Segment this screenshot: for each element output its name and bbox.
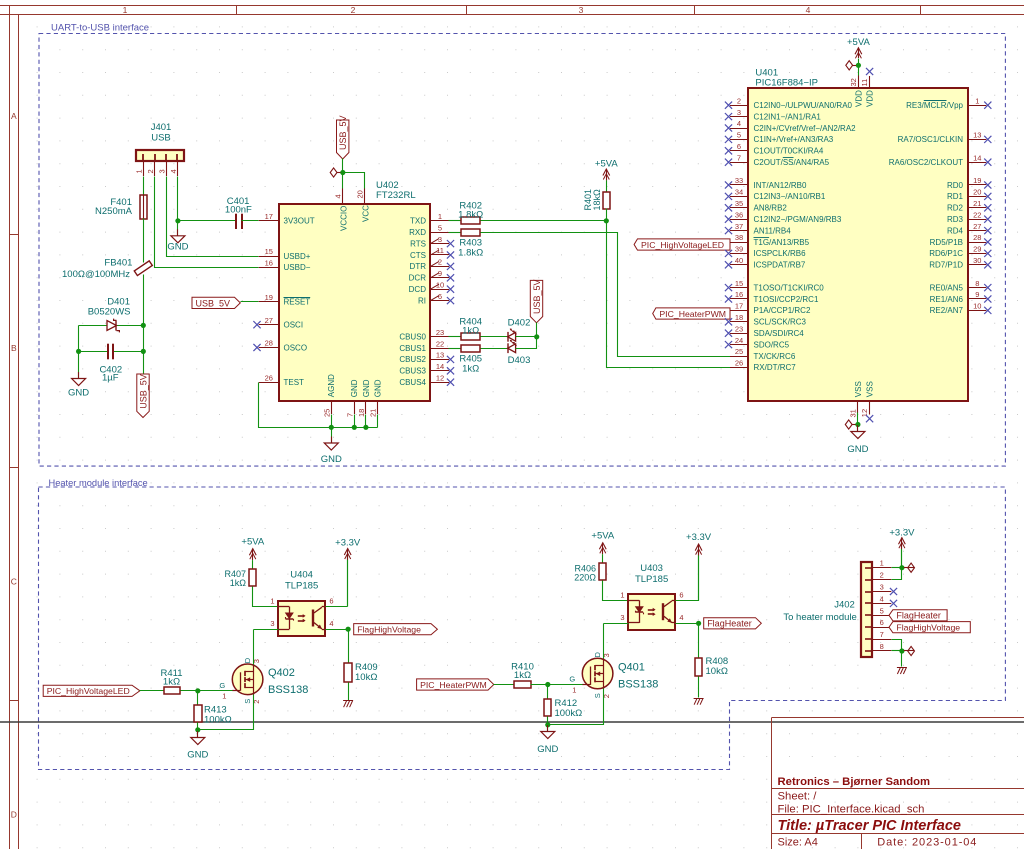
svg-text:SCL/SCK/RC3: SCL/SCK/RC3 xyxy=(754,318,807,327)
svg-text:USB_5V: USB_5V xyxy=(532,279,542,314)
svg-text:TLP185: TLP185 xyxy=(635,574,668,585)
svg-text:VSS: VSS xyxy=(854,381,863,397)
svg-text:3: 3 xyxy=(158,169,167,173)
svg-text:1: 1 xyxy=(135,169,144,173)
svg-text:USB_5V: USB_5V xyxy=(138,374,148,409)
svg-text:3: 3 xyxy=(602,653,611,657)
svg-text:SDA/SDI/RC4: SDA/SDI/RC4 xyxy=(754,329,805,338)
svg-text:AGND: AGND xyxy=(327,374,336,397)
svg-text:20: 20 xyxy=(973,188,981,197)
svg-text:AN8/RB2: AN8/RB2 xyxy=(754,204,788,213)
svg-text:CBUS3: CBUS3 xyxy=(399,367,426,376)
svg-text:RD6/P1C: RD6/P1C xyxy=(929,249,963,258)
svg-text:GND: GND xyxy=(373,379,382,397)
svg-text:26: 26 xyxy=(265,373,273,382)
svg-text:10kΩ: 10kΩ xyxy=(355,672,377,683)
svg-text:6: 6 xyxy=(880,618,884,627)
svg-text:1µF: 1µF xyxy=(102,373,119,384)
svg-text:CBUS2: CBUS2 xyxy=(399,355,426,364)
svg-text:USB: USB xyxy=(151,132,171,143)
svg-text:C12IN0−/ULPWU/AN0/RA0: C12IN0−/ULPWU/AN0/RA0 xyxy=(754,101,853,110)
svg-text:16: 16 xyxy=(265,259,273,268)
svg-text:6: 6 xyxy=(329,597,333,606)
svg-text:OSCI: OSCI xyxy=(284,321,304,330)
svg-text:Size: A4: Size: A4 xyxy=(778,837,818,849)
svg-text:31: 31 xyxy=(849,409,858,417)
svg-text:G: G xyxy=(219,681,225,690)
svg-text:INT/AN12/RB0: INT/AN12/RB0 xyxy=(754,181,807,190)
svg-text:CBUS0: CBUS0 xyxy=(399,333,426,342)
svg-text:GND: GND xyxy=(362,379,371,397)
svg-text:T1G/AN13/RB5: T1G/AN13/RB5 xyxy=(754,238,810,247)
svg-text:GND: GND xyxy=(68,388,89,399)
svg-text:17: 17 xyxy=(735,302,743,311)
svg-text:RD5/P1B: RD5/P1B xyxy=(930,238,963,247)
svg-text:PIC_HighVoltageLED: PIC_HighVoltageLED xyxy=(641,240,724,250)
svg-text:A: A xyxy=(11,111,17,121)
svg-text:B0520WS: B0520WS xyxy=(88,306,131,317)
svg-text:RI: RI xyxy=(418,296,426,305)
svg-text:To heater module: To heater module xyxy=(783,612,856,623)
svg-text:36: 36 xyxy=(735,210,743,219)
svg-text:14: 14 xyxy=(973,153,981,162)
svg-text:VCC: VCC xyxy=(361,205,370,222)
svg-text:12: 12 xyxy=(860,409,869,417)
svg-text:TXD: TXD xyxy=(410,217,426,226)
svg-text:USB_5V: USB_5V xyxy=(338,115,348,150)
svg-text:7: 7 xyxy=(880,630,884,639)
svg-text:23: 23 xyxy=(436,328,444,337)
svg-text:6: 6 xyxy=(679,590,683,599)
svg-text:Q402: Q402 xyxy=(268,667,295,679)
svg-text:RD1: RD1 xyxy=(947,192,964,201)
svg-text:6: 6 xyxy=(737,142,741,151)
svg-text:37: 37 xyxy=(735,222,743,231)
svg-text:CBUS1: CBUS1 xyxy=(399,344,426,353)
svg-text:13: 13 xyxy=(973,131,981,140)
svg-text:USB_5V: USB_5V xyxy=(196,298,231,308)
svg-text:3: 3 xyxy=(737,108,741,117)
svg-text:T1OSO/T1CKI/RC0: T1OSO/T1CKI/RC0 xyxy=(754,283,825,292)
svg-text:1kΩ: 1kΩ xyxy=(163,677,180,688)
svg-text:RX/DT/RC7: RX/DT/RC7 xyxy=(754,363,797,372)
svg-text:11: 11 xyxy=(860,79,869,87)
svg-text:BSS138: BSS138 xyxy=(618,679,658,691)
svg-text:RESET: RESET xyxy=(284,298,311,307)
svg-text:12: 12 xyxy=(436,373,444,382)
svg-text:GND: GND xyxy=(847,444,868,455)
svg-text:15: 15 xyxy=(735,279,743,288)
svg-text:C1IN+/Vref+/AN3/RA3: C1IN+/Vref+/AN3/RA3 xyxy=(754,135,834,144)
svg-text:ICSPDAT/RB7: ICSPDAT/RB7 xyxy=(754,261,806,270)
svg-text:G: G xyxy=(569,675,575,684)
svg-text:C12IN3−/AN10/RB1: C12IN3−/AN10/RB1 xyxy=(754,192,826,201)
svg-text:4: 4 xyxy=(169,169,178,173)
svg-text:1: 1 xyxy=(123,5,128,15)
svg-text:7: 7 xyxy=(737,153,741,162)
svg-text:30: 30 xyxy=(973,256,981,265)
svg-text:28: 28 xyxy=(973,233,981,242)
svg-text:4: 4 xyxy=(806,5,811,15)
svg-text:FlagHighVoltage: FlagHighVoltage xyxy=(896,623,960,633)
svg-text:40: 40 xyxy=(735,256,743,265)
svg-text:17: 17 xyxy=(265,212,273,221)
svg-text:8: 8 xyxy=(975,279,979,288)
svg-text:27: 27 xyxy=(265,316,273,325)
svg-text:18kΩ: 18kΩ xyxy=(592,189,602,211)
svg-text:FB401: FB401 xyxy=(104,258,132,269)
svg-text:+5VA: +5VA xyxy=(241,537,264,548)
svg-text:13: 13 xyxy=(436,351,444,360)
svg-text:14: 14 xyxy=(436,362,444,371)
svg-text:FT232RL: FT232RL xyxy=(376,190,416,201)
svg-text:100Ω@100MHz: 100Ω@100MHz xyxy=(62,269,130,280)
svg-text:Sheet: /: Sheet: / xyxy=(778,791,818,803)
svg-text:+3.3V: +3.3V xyxy=(889,528,915,539)
svg-text:+5VA: +5VA xyxy=(847,37,870,48)
svg-text:B: B xyxy=(11,343,17,353)
svg-text:RD7/P1D: RD7/P1D xyxy=(929,261,963,270)
svg-text:2: 2 xyxy=(880,571,884,580)
svg-text:VSS: VSS xyxy=(866,381,875,397)
svg-text:26: 26 xyxy=(735,359,743,368)
svg-text:8: 8 xyxy=(880,642,884,651)
svg-text:1kΩ: 1kΩ xyxy=(514,670,531,681)
svg-text:C12IN1−/AN1/RA1: C12IN1−/AN1/RA1 xyxy=(754,112,822,121)
svg-text:1: 1 xyxy=(572,685,576,694)
svg-text:RA7/OSC1/CLKIN: RA7/OSC1/CLKIN xyxy=(898,135,964,144)
svg-text:25: 25 xyxy=(323,409,332,417)
svg-text:2: 2 xyxy=(602,694,611,698)
svg-text:Date: 2023-01-04: Date: 2023-01-04 xyxy=(877,837,977,849)
svg-text:15: 15 xyxy=(265,247,273,256)
svg-text:CTS: CTS xyxy=(410,251,426,260)
svg-text:File: PIC_Interface.kicad_sch: File: PIC_Interface.kicad_sch xyxy=(778,804,925,816)
svg-text:S: S xyxy=(243,699,252,704)
svg-text:ICSPCLK/RB6: ICSPCLK/RB6 xyxy=(754,249,807,258)
svg-text:RE3/MCLR/Vpp: RE3/MCLR/Vpp xyxy=(906,101,963,110)
svg-text:Heater module interface: Heater module interface xyxy=(49,478,148,488)
svg-text:U403: U403 xyxy=(640,563,663,574)
svg-text:+3.3V: +3.3V xyxy=(686,532,712,543)
svg-text:PIC16F884−IP: PIC16F884−IP xyxy=(755,77,818,88)
svg-text:1: 1 xyxy=(620,590,624,599)
svg-text:PIC_HighVoltageLED: PIC_HighVoltageLED xyxy=(47,686,130,696)
svg-text:34: 34 xyxy=(735,188,743,197)
svg-text:PIC_HeaterPWM: PIC_HeaterPWM xyxy=(659,309,726,319)
svg-text:J402: J402 xyxy=(834,599,855,610)
svg-text:1kΩ: 1kΩ xyxy=(462,363,479,374)
svg-text:D: D xyxy=(593,652,602,658)
svg-text:+3.3V: +3.3V xyxy=(335,538,361,549)
svg-text:OSCO: OSCO xyxy=(284,343,308,352)
svg-text:DCR: DCR xyxy=(409,274,427,283)
svg-text:29: 29 xyxy=(973,245,981,254)
svg-text:3: 3 xyxy=(579,5,584,15)
svg-text:5: 5 xyxy=(880,606,884,615)
svg-text:21: 21 xyxy=(973,199,981,208)
svg-text:Retronics – Bjørner Sandom: Retronics – Bjørner Sandom xyxy=(778,776,931,788)
svg-text:18: 18 xyxy=(735,313,743,322)
svg-text:3: 3 xyxy=(270,619,274,628)
svg-text:RE1/AN6: RE1/AN6 xyxy=(930,295,964,304)
svg-text:C: C xyxy=(11,577,17,587)
svg-text:35: 35 xyxy=(735,199,743,208)
svg-text:Q401: Q401 xyxy=(618,662,645,674)
svg-text:GND: GND xyxy=(537,744,558,755)
svg-text:Title: µTracer PIC Interface: Title: µTracer PIC Interface xyxy=(778,818,962,834)
svg-text:4: 4 xyxy=(880,594,884,603)
svg-text:CBUS4: CBUS4 xyxy=(399,378,426,387)
svg-text:D: D xyxy=(11,810,17,820)
svg-text:19: 19 xyxy=(973,176,981,185)
svg-text:P1A/CCP1/RC2: P1A/CCP1/RC2 xyxy=(754,306,811,315)
svg-text:2: 2 xyxy=(146,169,155,173)
svg-text:25: 25 xyxy=(735,347,743,356)
svg-text:N250mA: N250mA xyxy=(95,206,133,217)
svg-text:FlagHighVoltage: FlagHighVoltage xyxy=(357,625,421,635)
svg-text:23: 23 xyxy=(735,324,743,333)
svg-text:2: 2 xyxy=(351,5,356,15)
svg-text:18: 18 xyxy=(357,409,366,417)
svg-text:7: 7 xyxy=(346,413,355,417)
svg-text:16: 16 xyxy=(735,290,743,299)
svg-text:+5VA: +5VA xyxy=(591,531,614,542)
svg-text:RD4: RD4 xyxy=(947,226,964,235)
svg-text:1: 1 xyxy=(438,212,442,221)
svg-text:S: S xyxy=(593,693,602,698)
svg-text:VDD: VDD xyxy=(855,90,864,107)
svg-text:3: 3 xyxy=(620,613,624,622)
svg-text:4: 4 xyxy=(334,194,343,198)
svg-text:RA6/OSC2/CLKOUT: RA6/OSC2/CLKOUT xyxy=(889,158,963,167)
svg-text:1: 1 xyxy=(270,597,274,606)
svg-text:+5VA: +5VA xyxy=(595,159,618,170)
svg-text:100kΩ: 100kΩ xyxy=(204,715,232,726)
svg-text:BSS138: BSS138 xyxy=(268,684,308,696)
svg-text:27: 27 xyxy=(973,222,981,231)
svg-text:FlagHeater: FlagHeater xyxy=(896,611,941,621)
svg-text:28: 28 xyxy=(265,339,273,348)
svg-text:U404: U404 xyxy=(290,570,313,581)
svg-text:GND: GND xyxy=(167,242,188,253)
svg-text:4: 4 xyxy=(329,619,333,628)
svg-text:22: 22 xyxy=(436,339,444,348)
svg-text:GND: GND xyxy=(187,750,208,761)
svg-text:3: 3 xyxy=(880,583,884,592)
svg-text:9: 9 xyxy=(975,290,979,299)
svg-text:FlagHeater: FlagHeater xyxy=(707,619,752,629)
svg-text:1: 1 xyxy=(222,692,226,701)
svg-text:2: 2 xyxy=(252,700,261,704)
svg-text:3: 3 xyxy=(252,659,261,663)
svg-text:C2IN+/CVref/Vref−/AN2/RA2: C2IN+/CVref/Vref−/AN2/RA2 xyxy=(754,124,857,133)
svg-text:C1OUT/T0CKI/RA4: C1OUT/T0CKI/RA4 xyxy=(754,147,824,156)
svg-text:21: 21 xyxy=(369,409,378,417)
svg-text:100nF: 100nF xyxy=(225,204,252,215)
svg-text:3V3OUT: 3V3OUT xyxy=(284,217,315,226)
svg-text:D: D xyxy=(243,657,252,663)
svg-text:RD2: RD2 xyxy=(947,204,964,213)
svg-text:RTS: RTS xyxy=(410,239,426,248)
svg-text:1: 1 xyxy=(975,96,979,105)
svg-text:D403: D403 xyxy=(508,355,531,366)
svg-text:38: 38 xyxy=(735,233,743,242)
svg-text:RD3: RD3 xyxy=(947,215,964,224)
svg-text:22: 22 xyxy=(973,210,981,219)
svg-text:33: 33 xyxy=(735,176,743,185)
svg-text:100kΩ: 100kΩ xyxy=(555,708,583,719)
svg-text:TLP185: TLP185 xyxy=(285,580,318,591)
svg-text:5: 5 xyxy=(737,131,741,140)
svg-text:5: 5 xyxy=(438,223,442,232)
svg-text:DTR: DTR xyxy=(410,262,427,271)
svg-text:RE2/AN7: RE2/AN7 xyxy=(930,306,964,315)
svg-text:VDD: VDD xyxy=(866,90,875,107)
svg-text:T1OSI/CCP2/RC1: T1OSI/CCP2/RC1 xyxy=(754,295,819,304)
svg-text:1: 1 xyxy=(880,559,884,568)
svg-text:10kΩ: 10kΩ xyxy=(706,666,728,677)
svg-text:GND: GND xyxy=(350,379,359,397)
svg-text:1kΩ: 1kΩ xyxy=(462,325,479,336)
svg-text:2: 2 xyxy=(737,96,741,105)
svg-text:AN11/RB4: AN11/RB4 xyxy=(754,226,792,235)
svg-text:C12IN2−/PGM/AN9/RB3: C12IN2−/PGM/AN9/RB3 xyxy=(754,215,842,224)
svg-text:10: 10 xyxy=(973,302,981,311)
svg-text:RE0/AN5: RE0/AN5 xyxy=(930,283,964,292)
svg-text:D402: D402 xyxy=(508,317,531,328)
svg-text:SDO/RC5: SDO/RC5 xyxy=(754,340,790,349)
svg-text:USBD+: USBD+ xyxy=(284,252,311,261)
svg-text:TX/CK/RC6: TX/CK/RC6 xyxy=(754,352,796,361)
svg-text:20: 20 xyxy=(356,190,365,198)
svg-text:USBD−: USBD− xyxy=(284,263,311,272)
svg-text:UART-to-USB interface: UART-to-USB interface xyxy=(51,23,149,34)
svg-text:1.8kΩ: 1.8kΩ xyxy=(458,247,483,258)
svg-text:VCCIO: VCCIO xyxy=(339,206,348,231)
svg-text:1.8kΩ: 1.8kΩ xyxy=(458,209,483,220)
svg-text:RXD: RXD xyxy=(409,228,426,237)
svg-text:220Ω: 220Ω xyxy=(574,573,596,583)
svg-text:24: 24 xyxy=(735,336,743,345)
svg-text:39: 39 xyxy=(735,245,743,254)
svg-text:TEST: TEST xyxy=(284,378,305,387)
svg-text:32: 32 xyxy=(849,78,858,86)
svg-text:C2OUT/SS/AN4/RA5: C2OUT/SS/AN4/RA5 xyxy=(754,158,830,167)
svg-text:4: 4 xyxy=(679,613,683,622)
svg-text:DCD: DCD xyxy=(409,285,427,294)
svg-text:GND: GND xyxy=(321,454,342,465)
svg-text:RD0: RD0 xyxy=(947,181,964,190)
svg-text:PIC_HeaterPWM: PIC_HeaterPWM xyxy=(420,680,487,690)
svg-text:19: 19 xyxy=(265,293,273,302)
svg-text:1kΩ: 1kΩ xyxy=(230,578,247,588)
svg-text:4: 4 xyxy=(737,119,741,128)
